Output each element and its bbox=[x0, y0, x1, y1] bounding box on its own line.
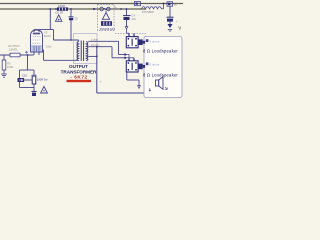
svg-text:1N5408 6A1: 1N5408 6A1 bbox=[100, 27, 116, 31]
rail V+ top bbox=[0, 3, 183, 5]
svg-text:#TC5588: #TC5588 bbox=[142, 10, 154, 14]
rail B+ second bbox=[0, 8, 146, 10]
red bar bbox=[67, 80, 92, 82]
capacitor C2 lower wire bbox=[126, 20, 128, 27]
svg-text:+: + bbox=[100, 79, 102, 83]
relay K1 box bbox=[135, 2, 141, 6]
svg-text:+: + bbox=[176, 19, 178, 23]
bypass loop bbox=[19, 82, 21, 88]
mark top-right bbox=[178, 27, 181, 30]
tube V1 glow bbox=[31, 45, 42, 52]
cabinet box bbox=[144, 37, 182, 98]
wire to speaker 1 bbox=[126, 30, 128, 34]
transformer frame bbox=[74, 34, 98, 64]
loudspeaker LS1 stubs bbox=[128, 33, 130, 36]
transformer bottom wire bbox=[44, 59, 79, 61]
input rail bbox=[0, 54, 34, 56]
loudspeaker LS2 ohms bbox=[146, 62, 149, 65]
dashed boundary bbox=[115, 33, 146, 35]
svg-text:MC: MC bbox=[129, 1, 133, 5]
tube V1 anode bbox=[33, 33, 40, 35]
ground under R4 bbox=[3, 70, 5, 74]
inductor L1 bbox=[142, 7, 162, 9]
speaker feed 1 bbox=[118, 41, 120, 54]
fuse F1 lamp circles bbox=[100, 7, 104, 11]
resistor R5 vertical bbox=[32, 76, 36, 84]
svg-text:8 ohms: 8 ohms bbox=[149, 39, 159, 43]
transformer secondary bbox=[86, 42, 88, 61]
resistor R4 vertical bbox=[3, 55, 5, 60]
loudspeaker LS1 magnet bbox=[138, 39, 143, 45]
loudspeaker LS2 body bbox=[126, 61, 138, 72]
ground triangle bbox=[41, 87, 48, 94]
capacitor C5 bbox=[32, 90, 37, 92]
svg-text:8 Ω Loudspeaker: 8 Ω Loudspeaker bbox=[143, 73, 178, 78]
svg-text:TRANSFORMER: TRANSFORMER bbox=[61, 69, 97, 74]
node on input rail bbox=[27, 54, 29, 56]
node under C1 bbox=[70, 8, 72, 10]
speaker feed 2 bbox=[111, 47, 113, 58]
capacitor C1 bbox=[69, 16, 74, 18]
svg-text:- 6K72: - 6K72 bbox=[70, 75, 87, 81]
transformer core bbox=[80, 41, 82, 62]
zener D1 triangle bbox=[56, 15, 62, 21]
svg-text:47u: 47u bbox=[132, 17, 137, 21]
capacitor C1 wire bbox=[70, 9, 72, 17]
wire LS2 down bbox=[126, 72, 128, 80]
resistor R2 bbox=[101, 21, 112, 26]
svg-text:180R 5w: 180R 5w bbox=[37, 78, 48, 82]
svg-text:LEVEL: LEVEL bbox=[9, 48, 18, 52]
svg-text:100K: 100K bbox=[7, 65, 13, 69]
tube V1 cathode bbox=[33, 46, 35, 51]
resistor R1 bbox=[57, 7, 68, 10]
tube V1 grid bbox=[33, 36, 41, 38]
tube pin to rail bbox=[33, 52, 35, 55]
bends to speaker 2 stubs bbox=[127, 54, 129, 56]
ground under C3 bbox=[169, 22, 171, 24]
capacitor C2 bbox=[123, 15, 131, 17]
svg-text:8 Ω Loudspeaker: 8 Ω Loudspeaker bbox=[143, 49, 178, 54]
wire R5 down bbox=[33, 84, 35, 91]
fuse F1 node bbox=[93, 8, 96, 11]
loudspeaker LS2 magnet bbox=[138, 64, 143, 70]
tube V1 envelope bbox=[31, 30, 43, 52]
long vertical return bbox=[96, 47, 98, 93]
svg-text:240R: 240R bbox=[58, 4, 65, 8]
svg-text:C10: C10 bbox=[22, 74, 27, 78]
diode D2 triangle bbox=[105, 11, 107, 13]
svg-text:2A: 2A bbox=[113, 5, 117, 9]
svg-text:8 ohms: 8 ohms bbox=[149, 63, 159, 67]
bottom return wire bbox=[97, 92, 144, 94]
cabinet speaker glyph bbox=[156, 80, 159, 86]
diode D3 bbox=[18, 78, 25, 82]
loudspeaker LS1 body bbox=[126, 37, 138, 48]
capacitor C2 wire bbox=[126, 9, 128, 15]
capacitor C3 bbox=[167, 16, 174, 18]
wire D3 to R5 bbox=[24, 79, 32, 81]
fuse F1 box bbox=[98, 5, 115, 31]
svg-text:25: 25 bbox=[75, 17, 79, 21]
wire node to cathode chain bbox=[27, 55, 29, 70]
loudspeaker LS1 ohms bbox=[146, 39, 149, 42]
svg-text:CA 1R: CA 1R bbox=[55, 10, 63, 14]
loudspeaker LS2 stubs bbox=[128, 58, 130, 61]
wire S1 down bbox=[169, 6, 171, 17]
transformer primary bbox=[77, 42, 79, 61]
svg-text:100n: 100n bbox=[46, 46, 52, 49]
cabinet wire marks bbox=[149, 88, 151, 91]
switch S1 box bbox=[167, 2, 173, 6]
wire C1 to transformer bbox=[70, 20, 72, 40]
tube top wire bbox=[34, 29, 54, 31]
svg-text:EL84: EL84 bbox=[44, 34, 51, 38]
resistor R3 bbox=[10, 53, 20, 57]
svg-text:R9: R9 bbox=[7, 61, 11, 65]
tube V1 pins top bbox=[33, 30, 35, 32]
